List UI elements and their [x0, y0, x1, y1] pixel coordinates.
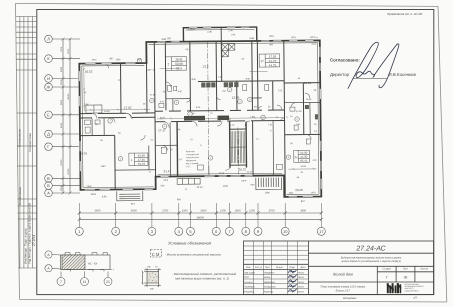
svg-text:Апель: Апель	[264, 276, 271, 279]
svg-text:Кухонная: Кухонная	[186, 150, 195, 153]
axis circle В	[45, 175, 53, 183]
room label box unit 2	[165, 57, 186, 71]
position mark circles	[107, 57, 299, 161]
axis leader ticks	[79, 203, 321, 227]
svg-text:3600: 3600	[95, 210, 101, 213]
svg-text:ГИП: ГИП	[244, 276, 249, 279]
svg-text:10: 10	[283, 229, 288, 234]
interior walls horizontal	[79, 80, 321, 170]
axis circle 4	[175, 227, 183, 235]
svg-text:16.52: 16.52	[85, 70, 93, 74]
key plan fragment	[45, 251, 114, 286]
svg-text:газовой плиты: газовой плиты	[186, 156, 200, 159]
svg-text:АС - КУ: АС - КУ	[88, 262, 98, 265]
kitchen counter blocks	[201, 81, 318, 120]
title block	[244, 241, 434, 300]
interior dim line room 16.52	[83, 67, 85, 111]
svg-text:3200: 3200	[60, 185, 63, 191]
svg-text:3600: 3600	[300, 210, 306, 213]
wall inner faces	[81, 29, 318, 197]
svg-text:970: 970	[231, 33, 236, 36]
svg-text:27.24-АС: 27.24-АС	[355, 246, 386, 253]
svg-text:76.73: 76.73	[138, 162, 146, 166]
svg-text:Проверил: Проверил	[244, 286, 255, 289]
svg-text:ОГР: ОГР	[242, 180, 247, 183]
svg-text:3000: 3000	[60, 79, 63, 85]
closet in room 16.52	[86, 105, 102, 113]
svg-text:ОК1: ОК1	[269, 35, 274, 38]
svg-text:7200: 7200	[60, 46, 63, 52]
interior walls vertical	[91, 40, 310, 198]
axis circle 5	[187, 227, 195, 235]
svg-text:5800: 5800	[60, 99, 63, 105]
svg-text:Подп.: Подп.	[289, 266, 295, 269]
svg-text:7: 7	[60, 280, 62, 284]
legend	[45, 241, 237, 291]
svg-text:2980: 2980	[249, 37, 255, 40]
axis circle Б	[45, 182, 53, 190]
windows bottom and side walls	[79, 47, 322, 200]
svg-text:Н.контр.: Н.контр.	[244, 281, 253, 284]
dimension chain line	[79, 212, 321, 214]
axis circle 1	[75, 227, 83, 235]
svg-text:Зав.отдел: Зав.отдел	[244, 272, 255, 275]
svg-text:09.04: 09.04	[298, 290, 304, 293]
svg-text:ОК1: ОК1	[289, 192, 294, 195]
svg-text:А: А	[47, 191, 50, 196]
stair bay outer wall	[183, 27, 256, 42]
svg-text:65.41: 65.41	[300, 159, 307, 163]
svg-text:6180: 6180	[60, 122, 63, 128]
svg-text:14034: 14034	[188, 28, 195, 31]
axis centerline through stair	[208, 42, 239, 176]
svg-text:Лист: Лист	[403, 268, 409, 271]
stage cells	[383, 268, 429, 271]
axis circle 2	[112, 227, 120, 235]
svg-text:2700: 2700	[162, 210, 168, 213]
svg-text:Листов: Листов	[420, 268, 428, 271]
svg-text:В: В	[47, 176, 50, 181]
svg-text:19.79: 19.79	[79, 152, 87, 156]
svg-text:7200: 7200	[67, 48, 70, 54]
entrance porch mid with steps	[256, 178, 282, 190]
room label box unit 17	[259, 54, 280, 68]
svg-text:09.04: 09.04	[298, 272, 304, 275]
approval block	[330, 12, 423, 89]
svg-text:16.73: 16.73	[247, 170, 253, 173]
svg-text:обеденные: обеденные	[186, 159, 197, 162]
svg-text:2380: 2380	[100, 165, 106, 168]
axis circle 8	[242, 227, 250, 235]
scattered small dimension texts	[83, 36, 320, 196]
svg-text:24000: 24000	[197, 216, 205, 219]
bottom axis row	[75, 203, 325, 235]
left dimension numbers	[60, 46, 70, 191]
overall dimension line	[79, 218, 321, 220]
institute emblem	[387, 283, 401, 293]
svg-text:14000: 14000	[67, 93, 70, 100]
top dimension labels	[85, 27, 317, 206]
outer wall envelope	[79, 40, 321, 199]
room area labels	[79, 63, 313, 194]
svg-text:Оводенко: Оводенко	[264, 272, 275, 275]
svg-text:57.09: 57.09	[296, 110, 302, 113]
svg-text:Г: Г	[386, 276, 388, 280]
svg-text:бар 2 этажей: бар 2 этажей	[186, 162, 198, 165]
key plan axis circle А upper	[45, 251, 112, 286]
room label box unit 1	[129, 153, 148, 166]
svg-text:Копировал: Копировал	[343, 297, 357, 300]
staff rows	[244, 272, 276, 294]
kitchen note text	[186, 150, 200, 168]
vent shaft boxes	[222, 44, 235, 57]
svg-text:697: 697	[131, 203, 136, 206]
svg-text:5380: 5380	[60, 66, 63, 72]
svg-text:897: 897	[109, 57, 114, 60]
svg-text:1300: 1300	[220, 210, 226, 213]
axis circle 7	[226, 227, 234, 235]
svg-text:ОК1: ОК1	[291, 36, 296, 39]
axis circle К	[45, 55, 53, 63]
svg-text:2700: 2700	[269, 210, 275, 213]
svg-text:50.98: 50.98	[175, 62, 183, 66]
axis letters	[47, 37, 51, 196]
axis circle Л	[45, 35, 53, 43]
svg-text:Швебович: Швебович	[264, 281, 276, 284]
svg-text:Ж: Ж	[47, 85, 51, 90]
windows top wall	[85, 26, 313, 64]
svg-text:Согласовано: Согласовано	[18, 129, 22, 147]
svg-text:09.04: 09.04	[298, 281, 304, 284]
svg-text:08: 08	[404, 276, 408, 280]
svg-text:27.2/14: 27.2/14	[32, 235, 36, 246]
svg-text:2.40: 2.40	[228, 29, 233, 32]
svg-text:Л: Л	[47, 37, 50, 42]
axis circle 17	[317, 227, 325, 235]
axis circle 10	[281, 227, 289, 235]
dimension numbers	[95, 210, 307, 220]
svg-text:31.41: 31.41	[164, 169, 172, 173]
svg-text:Голохвостова: Голохвостова	[28, 133, 32, 152]
svg-text:2980: 2980	[115, 58, 121, 61]
svg-text:- Место установки стиральной м: - Место установки стиральной машины	[165, 252, 222, 256]
svg-text:В осях 1-17: В осях 1-17	[336, 290, 351, 293]
svg-text:1400: 1400	[223, 185, 229, 188]
svg-text:с нишами для: с нишами для	[186, 153, 199, 156]
svg-text:над панелью выше отметки (см.: над панелью выше отметки (см. п. 1)	[175, 277, 229, 281]
svg-text:Выборочная перепланировка жило: Выборочная перепланировка жилого дома в …	[341, 256, 402, 259]
svg-text:ОК9: ОК9	[87, 185, 92, 188]
axis circle 6	[212, 227, 220, 235]
dimension slashes	[78, 212, 323, 221]
svg-text:1200: 1200	[249, 210, 255, 213]
svg-text:И.В.Косенков: И.В.Косенков	[389, 72, 417, 77]
svg-text:Условные обозначения: Условные обозначения	[168, 241, 212, 246]
svg-text:960: 960	[177, 198, 182, 201]
svg-text:Кондратюк: Кондратюк	[264, 286, 277, 289]
svg-text:Разработ.: Разработ.	[244, 290, 255, 293]
axis circle 3	[148, 227, 156, 235]
axis circle Г	[45, 143, 53, 151]
svg-text:12000: 12000	[67, 168, 70, 175]
svg-text:897: 897	[301, 200, 306, 203]
svg-text:2970: 2970	[91, 58, 97, 61]
svg-text:Директор: Директор	[330, 72, 350, 77]
svg-text:Стадия: Стадия	[383, 268, 392, 271]
interior dim strings	[86, 67, 317, 172]
svg-text:13.2: 13.2	[203, 64, 209, 68]
entrance stoop mid-left	[177, 178, 200, 184]
axis leader lines	[52, 38, 80, 40]
svg-text:20.99: 20.99	[300, 165, 306, 168]
svg-text:а3: а3	[414, 296, 418, 300]
svg-text:1200: 1200	[182, 210, 188, 213]
svg-text:2.30: 2.30	[207, 30, 212, 33]
svg-text:16.16: 16.16	[304, 81, 312, 85]
svg-text:17.02: 17.02	[124, 106, 132, 110]
svg-text:17: 17	[260, 59, 264, 63]
svg-text:20.20: 20.20	[295, 188, 303, 192]
room label box unit 2x	[294, 150, 310, 163]
svg-text:Изм.: Изм.	[246, 266, 251, 269]
svg-text:ОБЛЖИЛПРОЕКТ: ОБЛЖИЛПРОЕКТ	[405, 289, 419, 292]
svg-text:16.91: 16.91	[175, 57, 183, 61]
svg-text:2980: 2980	[161, 38, 167, 41]
svg-text:Узд.№подл. Подпись и дата Вза: Узд.№подл. Подпись и дата Взам. инв.№	[28, 202, 32, 264]
svg-text:С М: С М	[152, 252, 160, 257]
axis circle А	[45, 189, 53, 197]
header row	[246, 266, 306, 269]
svg-text:№ док.: № док.	[276, 266, 284, 269]
svg-text:жилых домов по ул.Набережной: жилых домов по ул.Набережной г. Бреста №…	[340, 260, 400, 263]
axis circle Ж	[45, 83, 53, 91]
svg-text:3.80: 3.80	[102, 195, 107, 198]
svg-text:Е: Е	[47, 112, 50, 117]
vent element symbol	[142, 269, 162, 288]
svg-text:2600: 2600	[200, 210, 206, 213]
svg-text:2970: 2970	[311, 43, 317, 46]
corridor floor bars	[184, 116, 229, 121]
svg-text:Примечания см. л. АС-09.: Примечания см. л. АС-09.	[387, 12, 423, 16]
axis circle Д	[45, 130, 53, 138]
svg-text:ПЛ1: ПЛ1	[221, 117, 227, 120]
svg-text:Дата: Дата	[300, 266, 306, 269]
svg-text:12300: 12300	[60, 159, 63, 166]
handwritten signatures	[288, 270, 297, 293]
svg-text:21: 21	[106, 280, 110, 284]
director signature	[348, 42, 399, 88]
svg-text:44.75: 44.75	[269, 63, 277, 67]
axis circle 9	[254, 227, 262, 235]
svg-text:План типового этажа 2,5,6 этаж: План типового этажа 2,5,6 этажа	[321, 286, 366, 289]
left margin table	[16, 17, 36, 269]
svg-text:11: 11	[83, 280, 87, 284]
svg-text:Б: Б	[47, 183, 50, 188]
svg-text:37.09: 37.09	[150, 93, 156, 96]
entrance porch left	[117, 191, 143, 201]
svg-text:Согласовано: Согласовано	[18, 187, 22, 205]
svg-text:897: 897	[167, 37, 172, 40]
svg-text:ОГ9: ОГ9	[164, 179, 169, 182]
svg-text:Кол.уч: Кол.уч	[255, 266, 263, 269]
svg-text:16.05: 16.05	[306, 98, 312, 101]
svg-text:ОГ13: ОГ13	[197, 186, 204, 189]
svg-text:И: И	[47, 76, 50, 81]
svg-text:9694: 9694	[91, 193, 97, 196]
svg-text:18.08: 18.08	[104, 110, 110, 113]
svg-text:Д: Д	[47, 132, 50, 137]
svg-text:1600: 1600	[235, 210, 241, 213]
axis circle Е	[45, 111, 53, 119]
svg-text:3600: 3600	[131, 210, 137, 213]
svg-text:Согласовано:: Согласовано:	[330, 58, 360, 63]
svg-text:09.04: 09.04	[298, 286, 304, 289]
building plan	[78, 26, 322, 206]
corridor door openings	[92, 110, 268, 122]
svg-text:12.55: 12.55	[232, 96, 240, 100]
margin rotated labels	[18, 129, 36, 264]
svg-text:Жилой дом: Жилой дом	[332, 273, 353, 277]
svg-text:2980: 2980	[265, 191, 271, 194]
washing machine symbol	[151, 250, 162, 258]
vertical dimension strings	[62, 39, 64, 193]
axis numbers	[78, 229, 324, 234]
svg-text:26.72: 26.72	[239, 168, 247, 172]
letter axis circles column	[45, 35, 80, 197]
stair core hatch	[230, 131, 247, 163]
plumbing fixtures	[84, 84, 310, 171]
svg-text:17: 17	[319, 229, 324, 234]
door arcs	[92, 61, 312, 171]
svg-text:Ковалюк: Ковалюк	[264, 290, 274, 293]
svg-text:2970: 2970	[311, 191, 317, 194]
svg-text:09.04: 09.04	[298, 276, 304, 279]
svg-text:17.17: 17.17	[158, 128, 166, 132]
axis circle И	[45, 75, 53, 83]
svg-text:- Вентиляционный элемент, расп: - Вентиляционный элемент, расположенный	[172, 272, 237, 276]
svg-text:10.64: 10.64	[219, 172, 225, 175]
svg-text:2380: 2380	[84, 103, 90, 106]
